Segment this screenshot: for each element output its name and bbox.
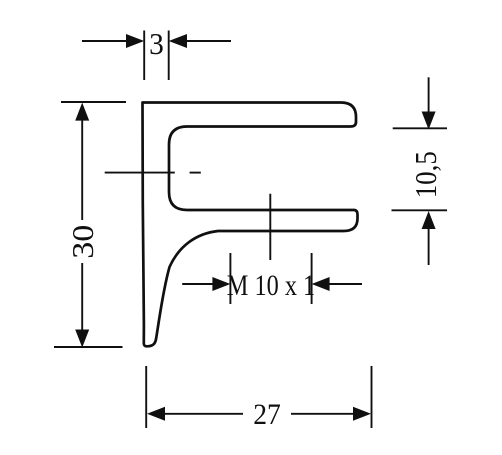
dimension 10,5: top arrow (pointing down)	[428, 77, 430, 113]
dimension 3: left arrow	[82, 40, 128, 42]
dimension 27: left arrow (pointing left)	[147, 407, 165, 421]
svg-text:M 10 x 1: M 10 x 1	[227, 268, 315, 301]
part outline: F-shaped clamp profile	[143, 103, 358, 347]
dimension 30 (left): extension lines	[54, 102, 126, 347]
svg-text:30: 30	[66, 225, 100, 259]
dimension 10,5: bottom arrow (pointing up)	[422, 211, 436, 229]
svg-text:10,5: 10,5	[409, 151, 443, 198]
dimension M 10 x 1: right arrow	[328, 283, 362, 285]
svg-text:3: 3	[149, 27, 164, 62]
dimension M 10 x 1: left arrow	[182, 283, 214, 285]
horizontal centerline through upper slot	[105, 172, 201, 174]
dimension 3 (top): extension lines	[144, 31, 169, 81]
dimension M 10 x 1: extension lines	[230, 253, 311, 304]
dimension 27 (bottom): extension lines	[146, 366, 371, 428]
dimension 30: bottom arrow (pointing down)	[81, 263, 83, 331]
dimension 10,5 (right): extension lines	[392, 128, 448, 210]
dimension 30: top arrow (pointing up)	[75, 103, 89, 121]
dimension 3: right arrow	[187, 40, 231, 42]
vertical centerline of M10x1 thread	[269, 194, 271, 260]
svg-text:27: 27	[253, 398, 281, 431]
dimension 27: right arrow (pointing right)	[291, 413, 355, 415]
